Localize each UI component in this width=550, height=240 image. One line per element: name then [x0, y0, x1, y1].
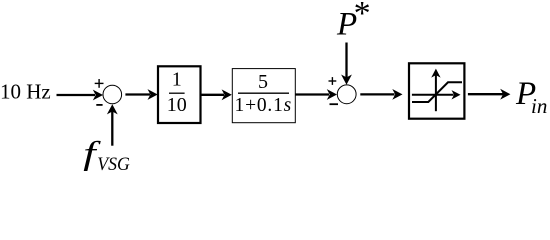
svg-text:5: 5 — [258, 71, 268, 93]
svg-text:10 Hz: 10 Hz — [0, 80, 51, 104]
svg-text:1+0.1s: 1+0.1s — [235, 95, 293, 116]
svg-text:in: in — [531, 94, 547, 118]
svg-text:*: * — [354, 0, 371, 32]
svg-text:1: 1 — [172, 69, 182, 91]
svg-text:VSG: VSG — [97, 154, 130, 175]
svg-text:10: 10 — [167, 94, 187, 116]
